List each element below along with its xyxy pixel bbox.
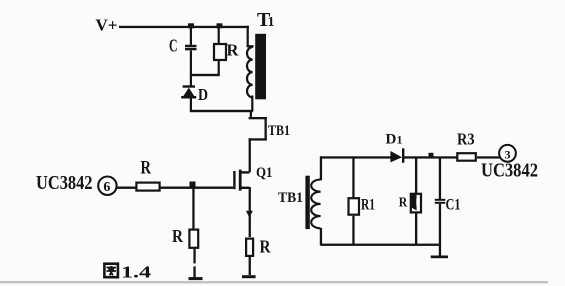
resistor R divider (vertical) (189, 230, 198, 248)
UC3842 left label (36, 172, 93, 194)
svg-text:R: R (172, 226, 184, 246)
resistor R snubber label (227, 41, 240, 60)
pin 3 circle (499, 145, 516, 162)
potentiometer R label (399, 196, 408, 211)
svg-text:R: R (227, 41, 240, 60)
scan artifact line (0, 281, 548, 283)
diode D1 (390, 148, 404, 163)
transformer TB1 secondary winding (311, 180, 320, 229)
svg-text:1.4: 1.4 (121, 263, 152, 282)
wire right bottom rail (321, 244, 442, 246)
junction right rail (429, 153, 434, 157)
diode D1 label (386, 132, 403, 148)
resistor R divider label (172, 226, 184, 246)
resistor R snubber (214, 28, 226, 74)
capacitor C (185, 28, 197, 75)
wire drain jog (TB1 primary loop) (249, 111, 267, 172)
wire TB1 top lead (320, 156, 322, 180)
wire snubber bottom to drain node (190, 110, 253, 112)
capacitor C1 (435, 157, 446, 245)
resistor R3 (horizontal) (457, 153, 476, 161)
junction snubber R branch (217, 23, 223, 28)
wire junction down to divider R (192, 187, 194, 229)
resistor R source (vertical) (246, 239, 253, 256)
resistor R source label (260, 237, 272, 257)
svg-text:6: 6 (103, 180, 110, 195)
svg-text:D: D (386, 132, 397, 148)
transformer T1 label (257, 9, 275, 31)
figure label 图1.4 (104, 263, 151, 282)
svg-text:1: 1 (268, 15, 275, 30)
junction gate divider (190, 182, 196, 188)
wire TB1 bottom lead (320, 228, 322, 246)
ground (source) (242, 275, 256, 278)
transformer T1 primary winding (247, 47, 253, 112)
wire source R to ground (249, 257, 251, 275)
svg-text:V+: V+ (96, 16, 118, 35)
node V+ label (96, 16, 118, 35)
transformer T1 core (255, 34, 266, 100)
UC3842 right label (481, 160, 538, 182)
diode D label (198, 85, 208, 104)
svg-text:TB1: TB1 (268, 123, 290, 139)
svg-text:C1: C1 (446, 197, 461, 214)
potentiometer R (411, 158, 421, 245)
svg-text:R3: R3 (457, 130, 475, 149)
svg-text:1: 1 (397, 133, 403, 147)
wire right top rail (right of D1) (404, 156, 457, 158)
transformer TB1 label (left) (268, 123, 290, 139)
transformer TB1 core (305, 176, 309, 229)
svg-text:R1: R1 (361, 197, 375, 214)
pin 6 circle (98, 177, 116, 196)
ground (left divider) (189, 277, 203, 280)
diode D (181, 76, 196, 111)
resistor R3 label (457, 130, 475, 149)
svg-text:R: R (141, 157, 152, 178)
transistor Q1 label (256, 165, 273, 181)
resistor R gate (horizontal) (136, 183, 159, 191)
svg-text:R: R (399, 196, 408, 211)
svg-text:UC3842: UC3842 (36, 172, 93, 194)
wire gate R to gate (161, 187, 234, 189)
wire rail corner down to T1 winding (247, 26, 254, 48)
svg-text:UC3842: UC3842 (481, 160, 538, 182)
resistor R gate label (141, 157, 152, 178)
wire R3 to pin3 (477, 156, 500, 158)
ground (right) (431, 256, 448, 259)
wire snubber R bottom to C/D node (190, 74, 220, 76)
svg-text:R: R (260, 237, 272, 257)
resistor R1 label (361, 197, 375, 214)
capacitor C1 label (446, 197, 461, 214)
capacitor C label (169, 36, 178, 56)
svg-text:Q1: Q1 (256, 165, 273, 181)
transistor Q1 (233, 170, 253, 237)
junction cap branch (188, 23, 194, 28)
wire right top rail (left of D1) (321, 156, 392, 158)
transformer TB1 label (right) (278, 190, 303, 206)
svg-text:D: D (198, 85, 208, 104)
resistor R1 (349, 158, 360, 245)
svg-text:TB1: TB1 (278, 190, 303, 206)
wire pin6 to gate R (117, 187, 137, 189)
wire divider R to ground (with scan gap) (193, 249, 195, 278)
wire bottom rail to ground (439, 245, 441, 256)
svg-text:C: C (169, 36, 178, 56)
wire V+ rail (119, 26, 249, 28)
